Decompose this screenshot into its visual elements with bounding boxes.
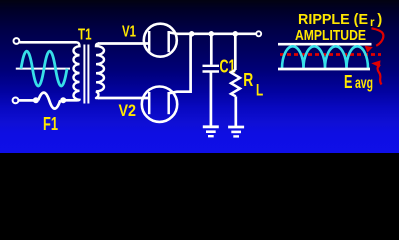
tube V2 envelope [142,87,177,122]
fuse F1 wavy element [38,93,60,109]
resistor RL zigzag [231,70,240,97]
wire: RL to ground [234,96,237,126]
transformer T1 core line 2 [87,45,89,104]
tube V2 plate arm and riser wire to top rail [169,34,191,93]
wire: bottom terminal to fuse [19,99,34,102]
svg-text:avg: avg [355,75,373,92]
transformer T1 primary winding [73,42,79,100]
svg-text:F1: F1 [43,114,58,134]
Eavg dotted red line [280,53,381,56]
wire: top terminal to transformer primary [20,41,77,44]
capacitor C1 bottom plate [203,70,220,72]
ripple trough line (bottom white line) [278,68,370,71]
fuse F1 right cap [60,97,66,103]
transformer T1 core line 1 [83,45,85,104]
input terminal (top-left) [14,38,20,44]
ground symbol (C1) [203,127,219,136]
wire: secondary top to V1 [98,42,149,45]
svg-text:E: E [344,72,353,92]
tube V2 right electrode bar [167,92,170,114]
tube V1 plate arm to top rail [169,32,177,34]
svg-text:RIPPLE (E: RIPPLE (E [298,11,368,28]
tube V2 left electrode bar [148,92,151,114]
svg-text:R: R [243,69,253,90]
top rail wire [177,32,256,35]
ripple peak line (top white line) [278,43,372,46]
tube V1 envelope [144,24,177,57]
wire: secondary bottom to V2 [98,97,149,100]
wire: node C down to RL [234,34,237,70]
svg-text:V1: V1 [122,23,136,40]
wire: C1 to ground [210,73,213,127]
input sine axis line [16,68,70,70]
red arrow to ripple amplitude [372,28,384,46]
svg-text:L: L [256,81,263,100]
fuse F1 left cap [33,97,39,103]
ground symbol (RL) [228,127,244,136]
wire: node B down to C1 [210,34,213,65]
svg-text:V2: V2 [119,101,137,120]
tube V1 right electrode bar [167,31,170,52]
ripple waveform arches (cyan) [282,46,368,68]
junction node C (RL) [233,31,239,37]
red arrow to Eavg line [378,65,382,85]
transformer T1 secondary winding [96,44,104,99]
svg-text:AMPLITUDE: AMPLITUDE [295,27,366,44]
svg-text:r: r [370,17,375,29]
input terminal (bottom-left) [13,98,19,104]
input sine wave (cyan) [21,51,67,86]
capacitor C1 top plate [203,65,220,67]
svg-text:): ) [377,11,382,28]
svg-text:T1: T1 [78,27,92,44]
junction node A (V2 riser) [189,31,195,37]
junction node B (C1) [209,31,215,37]
wire: fuse to transformer primary bottom [65,99,77,102]
output terminal [256,31,261,36]
tube V1 left electrode bar [148,31,151,52]
